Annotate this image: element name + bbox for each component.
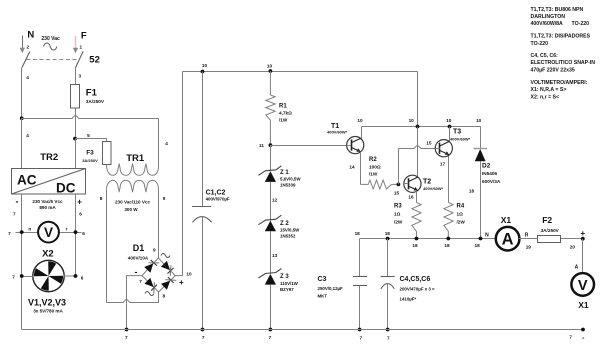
svg-text:600V/3A: 600V/3A xyxy=(482,179,501,184)
svg-text:X1: N,R,A = S>: X1: N,R,A = S> xyxy=(531,87,567,93)
svg-text:7: 7 xyxy=(139,279,142,284)
wire TR1 primary right side down xyxy=(158,119,160,167)
svg-text:4: 4 xyxy=(26,75,29,80)
output minus terminal dot xyxy=(581,328,585,332)
svg-text:3A/250V: 3A/250V xyxy=(541,228,560,233)
svg-text:13: 13 xyxy=(272,253,278,258)
svg-text:19: 19 xyxy=(526,244,532,249)
zener Z2 xyxy=(265,221,276,232)
svg-text:7: 7 xyxy=(387,336,390,341)
TR1 secondary winding xyxy=(107,180,159,192)
svg-text:1: 1 xyxy=(79,45,82,50)
svg-text:Z 3: Z 3 xyxy=(280,274,289,280)
svg-text:V: V xyxy=(44,225,53,240)
svg-text:C4,C5,C6: C4,C5,C6 xyxy=(400,276,431,283)
junction dot X2 right xyxy=(74,230,78,234)
svg-text:X2: n,r = S<: X2: n,r = S< xyxy=(531,94,560,100)
svg-text:18: 18 xyxy=(385,231,391,236)
svg-text:3A/250V: 3A/250V xyxy=(82,158,98,163)
svg-text:TR1: TR1 xyxy=(126,153,145,164)
wire top bus node 10 xyxy=(183,71,418,73)
svg-text:11: 11 xyxy=(259,143,264,148)
svg-text:5: 5 xyxy=(87,133,90,138)
svg-text:+: + xyxy=(580,229,585,238)
wire C4 upper xyxy=(387,239,389,277)
junction dot node 4 bus xyxy=(20,116,24,120)
svg-text:/2W: /2W xyxy=(394,220,403,225)
sine symbol xyxy=(44,43,57,50)
wire F1 down to junction xyxy=(75,108,77,139)
terminal arrow F (pink) xyxy=(75,36,77,49)
wire T3 collector up xyxy=(449,127,451,142)
svg-text:20: 20 xyxy=(570,244,576,249)
svg-text:9: 9 xyxy=(163,196,166,201)
svg-text:9: 9 xyxy=(153,248,156,253)
wire C4 lower xyxy=(387,283,389,329)
svg-text:7: 7 xyxy=(569,334,572,339)
svg-text:C1,C2: C1,C2 xyxy=(206,189,226,196)
svg-text:-: - xyxy=(16,197,19,207)
svg-text:TR2: TR2 xyxy=(40,152,58,163)
svg-text:V: V xyxy=(578,278,588,294)
svg-text:C4, C5, C6:: C4, C5, C6: xyxy=(531,53,559,59)
svg-text:3: 3 xyxy=(78,74,81,79)
bridge diode left-top xyxy=(144,263,153,272)
junction dot X2 left xyxy=(20,230,24,234)
wire F pole to F1 xyxy=(75,68,77,85)
svg-text:18: 18 xyxy=(355,231,361,236)
resistor R4 xyxy=(444,203,453,232)
svg-text:110V/1W: 110V/1W xyxy=(280,281,299,286)
zener Z1 xyxy=(265,171,276,182)
svg-text:15: 15 xyxy=(426,141,432,146)
svg-text:ELECTROLITICO SNAP-IN: ELECTROLITICO SNAP-IN xyxy=(531,60,596,66)
wire right rail into TR2 box xyxy=(75,139,77,169)
wire N pole down xyxy=(21,68,23,119)
resistor R1 xyxy=(269,71,271,95)
TR1 primary winding xyxy=(107,164,159,176)
junction dot Z3 at bus xyxy=(269,328,273,332)
svg-text:200V/470µF x 3 =: 200V/470µF x 3 = xyxy=(400,286,436,291)
wire C1C2 upper xyxy=(202,72,204,207)
svg-text:6: 6 xyxy=(79,211,82,216)
svg-text:4: 4 xyxy=(26,133,29,138)
wire top bus down to second bus xyxy=(417,72,419,127)
fuse F1 xyxy=(71,85,80,109)
svg-text:X2: X2 xyxy=(42,249,54,260)
wire T1 collector up xyxy=(361,127,363,139)
svg-text:+: + xyxy=(77,198,82,207)
svg-text:TO-220: TO-220 xyxy=(572,21,590,27)
fuse F3 xyxy=(103,142,112,165)
fans V1,V2,V3 symbol xyxy=(33,260,64,291)
junction dot bus-T2 xyxy=(416,125,420,129)
svg-text:+: + xyxy=(179,278,184,287)
svg-text:8: 8 xyxy=(162,294,165,299)
wire node 11 to Z1 xyxy=(270,145,272,171)
svg-text:V1,V2,V3: V1,V2,V3 xyxy=(28,297,66,307)
svg-text:17: 17 xyxy=(440,161,446,166)
wire C3 upper xyxy=(359,239,361,277)
wire T3 emitter down xyxy=(448,156,450,203)
svg-text:230 Vac/110 Vcc: 230 Vac/110 Vcc xyxy=(115,200,150,205)
svg-text:D2: D2 xyxy=(482,163,491,170)
breaker 52 right pole blade xyxy=(75,51,83,68)
svg-text:3A/250V: 3A/250V xyxy=(86,99,105,104)
svg-text:X1: X1 xyxy=(501,215,512,225)
svg-text:R3: R3 xyxy=(394,204,402,210)
wire Z3 to bottom bus xyxy=(270,285,272,330)
svg-text:R2: R2 xyxy=(369,157,377,163)
svg-text:7: 7 xyxy=(202,335,205,340)
svg-text:100Ω: 100Ω xyxy=(369,164,381,169)
capacitor C4,C5,C6 plates xyxy=(381,276,395,278)
wire T2 emitter down xyxy=(416,191,418,203)
svg-text:1Ω: 1Ω xyxy=(394,212,401,217)
svg-text:10: 10 xyxy=(267,63,273,68)
bridge diode bottom-right xyxy=(161,281,170,290)
svg-text:470µF 220V 22x35: 470µF 220V 22x35 xyxy=(531,67,575,73)
svg-text:230 Vac/5 Vcc: 230 Vac/5 Vcc xyxy=(32,199,63,204)
svg-text:400V/60W/8A: 400V/60W/8A xyxy=(531,21,564,27)
transistor T1 xyxy=(347,137,364,154)
wire TR2 minus rail down xyxy=(21,194,23,329)
wire C1C2 lower xyxy=(202,217,204,330)
svg-text:AC: AC xyxy=(17,172,37,187)
svg-text:T1,T2,T3: BU806 NPN: T1,T2,T3: BU806 NPN xyxy=(531,7,584,13)
wire fan left lead xyxy=(22,276,34,278)
svg-text:18: 18 xyxy=(474,243,480,248)
wire voltmeter X2 taps xyxy=(16,232,39,234)
svg-text:IN5406: IN5406 xyxy=(482,171,498,176)
svg-text:400V/60W*: 400V/60W* xyxy=(327,129,348,134)
breaker 52 linkage dashed line xyxy=(26,59,79,61)
wire node 11 to T1 base xyxy=(270,145,346,147)
svg-text:1N5352: 1N5352 xyxy=(280,234,296,239)
bridge diamond outline xyxy=(142,258,175,292)
wire TR1 secondary left down xyxy=(106,190,108,303)
zener Z3 xyxy=(265,274,276,285)
wire fan right lead xyxy=(64,275,76,277)
svg-text:/1W: /1W xyxy=(279,118,288,123)
svg-text:18: 18 xyxy=(412,243,418,248)
ammeter X1 circle xyxy=(496,227,520,251)
svg-text:400V/970µF: 400V/970µF xyxy=(206,196,230,201)
svg-text:D1: D1 xyxy=(133,243,145,253)
voltmeter X1 circle xyxy=(571,273,594,296)
svg-text:16: 16 xyxy=(408,194,414,199)
wire secondary bottom with hop xyxy=(107,292,159,303)
junction dot C3 at bus xyxy=(358,328,362,332)
svg-text:T3: T3 xyxy=(453,129,461,136)
wire bottom bus node 7 xyxy=(22,329,583,331)
wire node 18 rail xyxy=(360,238,497,240)
svg-text:230 Vac: 230 Vac xyxy=(41,36,60,42)
svg-text:7: 7 xyxy=(13,211,16,216)
junction dot node 5 xyxy=(73,137,77,141)
junction dot fan left xyxy=(20,274,24,278)
svg-text:R: R xyxy=(525,233,529,239)
svg-text:8: 8 xyxy=(100,196,103,201)
junction dot C1C2 top xyxy=(201,70,205,74)
capacitor C1,C2 plates xyxy=(192,206,211,208)
junction dot R1 top xyxy=(269,69,273,73)
svg-text:400V/60W*: 400V/60W* xyxy=(423,186,444,191)
junction dot R3 bottom xyxy=(415,237,419,241)
junction dot R4 bottom xyxy=(446,237,450,241)
svg-text:400V/60W*: 400V/60W* xyxy=(450,137,471,142)
svg-text:X1: X1 xyxy=(578,300,589,310)
junction dot D2 bottom xyxy=(479,237,483,241)
svg-text:1Ω: 1Ω xyxy=(457,212,464,217)
junction dot C4 top xyxy=(386,237,390,241)
resistor R3 xyxy=(412,203,421,232)
bridge diode top-right xyxy=(161,261,170,270)
wire T2 collector up xyxy=(417,127,419,178)
svg-text:DC: DC xyxy=(56,180,76,195)
wire Z1 to Z2 node 12 xyxy=(270,182,272,221)
wire bridge plus up rail xyxy=(175,72,182,276)
svg-text:52: 52 xyxy=(89,54,100,65)
wire left rail into TR2 box xyxy=(21,118,23,168)
junction dot node 11 xyxy=(269,143,273,147)
wire Z2 to Z3 node 13 xyxy=(270,231,272,274)
svg-text:7: 7 xyxy=(359,336,362,341)
svg-text:18: 18 xyxy=(444,243,450,248)
wire F2 to plus terminal xyxy=(561,238,583,240)
converter TR2 AC/DC box xyxy=(12,169,86,195)
svg-text:1410µF*: 1410µF* xyxy=(400,296,417,301)
junction dot minus at bus xyxy=(125,328,129,332)
svg-text:4,7kΩ: 4,7kΩ xyxy=(279,111,292,116)
svg-text:10: 10 xyxy=(186,272,192,277)
svg-text:R1: R1 xyxy=(279,104,287,110)
svg-text:7: 7 xyxy=(269,335,272,340)
breaker 52 left pole blade xyxy=(22,52,30,68)
svg-text:10: 10 xyxy=(446,118,452,123)
svg-text:F1: F1 xyxy=(86,87,98,98)
svg-text:3x 5V/780 mA: 3x 5V/780 mA xyxy=(33,309,63,314)
wire ammeter to F2 xyxy=(519,238,538,240)
svg-text:5,6V/0,5W: 5,6V/0,5W xyxy=(280,177,301,182)
svg-text:N: N xyxy=(27,30,34,41)
wire D2 anode from bus xyxy=(480,127,482,149)
svg-text:Z 1: Z 1 xyxy=(280,170,289,176)
svg-text:2: 2 xyxy=(26,45,29,50)
svg-text:MKT: MKT xyxy=(318,293,328,298)
wire D2 cathode down xyxy=(480,161,482,238)
svg-text:Z 2: Z 2 xyxy=(280,221,289,227)
svg-text:7: 7 xyxy=(8,231,11,236)
svg-text:BZY97: BZY97 xyxy=(280,287,294,292)
voltmeter X2 circle xyxy=(38,222,59,243)
wire node 15 up xyxy=(398,148,400,184)
wire C3 lower xyxy=(359,286,361,330)
svg-text:/1W: /1W xyxy=(369,172,378,177)
svg-text:4: 4 xyxy=(165,141,168,146)
svg-text:VOLTIMETRO/AMPERI:: VOLTIMETRO/AMPERI: xyxy=(531,80,588,86)
svg-text:250V/0,12µF: 250V/0,12µF xyxy=(318,286,344,291)
svg-text:r: r xyxy=(66,226,68,231)
diode D2 xyxy=(474,148,488,150)
wire T3 base with hop over T2 collector xyxy=(399,146,436,149)
svg-text:1N5339: 1N5339 xyxy=(280,183,296,188)
bridge diode left-bottom xyxy=(144,278,153,287)
svg-text:18: 18 xyxy=(469,188,475,193)
svg-text:10: 10 xyxy=(202,63,208,68)
svg-text:15: 15 xyxy=(394,190,400,195)
svg-text:400V/10A: 400V/10A xyxy=(128,256,149,261)
terminal arrow N xyxy=(22,36,24,50)
svg-text:T1,T2,T3: DISIPADORES: T1,T2,T3: DISIPADORES xyxy=(531,34,591,40)
bridge AC tilde top xyxy=(161,254,170,258)
svg-text:R4: R4 xyxy=(457,204,465,210)
wire node-4 horizontal with hop over F1 wire xyxy=(22,116,159,119)
fuse F2 xyxy=(538,236,561,243)
wire TR1 secondary right down to bridge xyxy=(158,190,160,258)
svg-text:14: 14 xyxy=(349,164,355,169)
svg-text:6: 6 xyxy=(81,275,84,280)
svg-text:F3: F3 xyxy=(86,150,94,157)
svg-text:A: A xyxy=(575,264,579,270)
svg-text:TO-220: TO-220 xyxy=(531,41,549,47)
svg-text:10: 10 xyxy=(409,118,415,123)
svg-text:890 mA: 890 mA xyxy=(39,205,56,210)
junction dot node 20 xyxy=(581,237,585,241)
svg-text:N: N xyxy=(485,233,489,239)
svg-text:T2: T2 xyxy=(423,179,431,186)
bridge AC tilde bottom xyxy=(145,292,154,296)
junction dot C1C2 bottom xyxy=(201,328,205,332)
capacitor C3 plates xyxy=(353,276,367,278)
junction dot bus-T3 xyxy=(448,125,452,129)
transistor T3 xyxy=(435,140,452,157)
svg-text:/2W: /2W xyxy=(457,220,466,225)
svg-text:300 W: 300 W xyxy=(124,207,138,212)
wire junction to fuse F3 xyxy=(76,139,107,142)
wire plus down to voltmeter xyxy=(582,239,584,274)
junction dot node 15 xyxy=(397,183,401,187)
wire second bus node 10 xyxy=(362,126,481,128)
svg-text:F2: F2 xyxy=(542,215,552,225)
svg-text:A: A xyxy=(502,231,514,249)
svg-text:10: 10 xyxy=(357,118,363,123)
resistor R2 xyxy=(360,183,368,185)
svg-text:7: 7 xyxy=(12,274,15,279)
svg-text:DARLINGTON: DARLINGTON xyxy=(531,14,566,20)
svg-text:n: n xyxy=(28,226,31,231)
wire T1 emitter down xyxy=(360,152,362,185)
svg-text:6: 6 xyxy=(82,231,85,236)
svg-text:C3: C3 xyxy=(318,276,327,283)
junction dot C4 at bus xyxy=(386,328,390,332)
wire TR2 plus rail down xyxy=(75,194,77,276)
svg-text:15V/0,5W: 15V/0,5W xyxy=(280,228,300,233)
transistor T2 xyxy=(404,175,421,192)
svg-text:F: F xyxy=(81,31,87,42)
svg-text:10: 10 xyxy=(476,118,482,123)
junction dot fan right xyxy=(74,274,78,278)
svg-text:7: 7 xyxy=(125,335,128,340)
svg-text:12: 12 xyxy=(272,197,278,202)
wire bridge minus down to bus xyxy=(127,276,143,330)
